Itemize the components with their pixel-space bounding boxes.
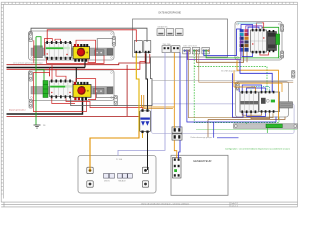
DK control box enclosure bbox=[133, 19, 228, 57]
frame border top ruler band bbox=[1, 2, 297, 4]
DK RJ45 connectors bbox=[157, 29, 183, 36]
wire red riser bbox=[126, 65, 128, 117]
wire green bar stub down bbox=[266, 128, 268, 133]
wire brown long to right edge bbox=[199, 54, 293, 82]
DK relay K1 bbox=[134, 41, 142, 54]
DK terminal groups bbox=[183, 47, 210, 54]
wire lavender DK mid down bbox=[118, 53, 165, 157]
wire yellow DK relay1 down bbox=[136, 53, 139, 131]
panel B enclosure bbox=[29, 70, 115, 101]
frame left ruler ticks bbox=[1, 12, 3, 195]
svg-text:ech. 1:1: ech. 1:1 bbox=[232, 206, 238, 208]
panel E socket 2 bbox=[87, 181, 93, 187]
wire blue drop bbox=[213, 122, 215, 138]
wire green panelA top bbox=[36, 37, 41, 48]
frame band cell marks bbox=[4, 3, 290, 4]
svg-text:Configuration : circuit interm: Configuration : circuit intermediaire di… bbox=[225, 148, 290, 151]
wire brown DK to panel C bbox=[197, 46, 244, 62]
panel A rail end block bbox=[107, 49, 113, 55]
wire blue DK mid down bbox=[179, 53, 181, 129]
wire orange long bypass panel D bbox=[237, 61, 278, 120]
ground symbol bbox=[34, 125, 41, 128]
svg-text:GENERATEUR: GENERATEUR bbox=[193, 159, 212, 163]
wire blue channel bbox=[187, 52, 276, 122]
wire grey panelA to DK relay2 bbox=[31, 28, 147, 42]
panel A rail connector grey bbox=[95, 50, 105, 56]
panel D loops bottom bbox=[242, 113, 269, 119]
wire red bus1a bbox=[7, 54, 150, 65]
breaker Q-gen mid bbox=[140, 109, 151, 133]
wire orange connector to generator bbox=[174, 140, 177, 158]
panel A rail clamp bbox=[34, 46, 43, 58]
wire green dashed earth run bbox=[194, 52, 279, 123]
wire blue long to panel D bbox=[240, 61, 272, 93]
panel C loops top bbox=[238, 23, 264, 35]
DK mid connectors bbox=[162, 46, 180, 53]
wire black breaker to socket3 bbox=[147, 133, 149, 170]
wire blue DK to panel C bbox=[204, 29, 241, 56]
panel B breaker group bbox=[50, 80, 74, 99]
panel B red loops bottom bbox=[34, 73, 143, 112]
panel E socket 4 bbox=[142, 181, 148, 187]
wire green dashed to earth bar bbox=[245, 123, 247, 124]
panel E enclosure bbox=[78, 156, 156, 194]
panel A right terminal bbox=[112, 37, 115, 47]
panel B screws bbox=[31, 72, 113, 99]
wire black DK relay2 down bbox=[146, 53, 148, 109]
connector pair upper above generator bbox=[172, 127, 182, 133]
panel B DIN rail bbox=[31, 87, 113, 95]
wire tan channel bbox=[188, 52, 273, 118]
wire blue connector to generator bbox=[179, 140, 180, 158]
wire green dashed fork to panel D bbox=[194, 67, 267, 92]
earth bar bbox=[234, 124, 298, 129]
svg-text:PC 16A: PC 16A bbox=[116, 158, 123, 161]
panel D changeover device bbox=[259, 91, 280, 113]
panel A emergency stop bbox=[73, 44, 90, 62]
wire green DK to panel C bbox=[206, 27, 279, 58]
connector pair lower above generator bbox=[172, 134, 182, 140]
panel B rail end block bbox=[107, 87, 113, 93]
panel C breakers bbox=[251, 29, 267, 54]
panel D breaker row bbox=[240, 91, 259, 113]
panel C screws bbox=[237, 23, 281, 59]
panel C contactor dark bbox=[267, 30, 277, 52]
wire green pale lower bbox=[196, 128, 297, 130]
panel C right terminal top bbox=[281, 25, 284, 32]
wire green block stub bbox=[278, 45, 280, 58]
panel B emergency stop bbox=[73, 82, 91, 100]
panel B grey wire to right terminal bbox=[97, 94, 115, 98]
panel A breaker group bbox=[45, 41, 72, 60]
panel B bottom-left terminal bbox=[29, 100, 32, 109]
panel B left terminal bbox=[29, 72, 32, 82]
wire black bus1b bbox=[7, 67, 86, 69]
panel E terminal group 1 bbox=[104, 174, 115, 179]
wire red bus1c bbox=[7, 62, 146, 70]
frame right border bbox=[297, 2, 299, 207]
wire blue left drop to D bottom bbox=[232, 73, 243, 117]
panel E socket 3 bbox=[142, 167, 148, 173]
wire orange run to socket1 bbox=[90, 131, 139, 170]
frame left ruler band bbox=[1, 2, 3, 202]
panel A enclosure bbox=[29, 31, 115, 60]
right edge terminal bbox=[292, 71, 295, 79]
panel D loops top bbox=[234, 70, 282, 92]
panel B green terminal block bbox=[43, 81, 48, 98]
wire blue relais segment bbox=[217, 137, 239, 139]
svg-text:DK7B MICROPHONE: DK7B MICROPHONE bbox=[159, 13, 182, 15]
wire green branch panelB bbox=[36, 70, 44, 81]
GENERATEUR box bbox=[171, 155, 228, 195]
svg-text:USB RJ: USB RJ bbox=[104, 181, 110, 183]
panel C right terminal bottom bbox=[281, 51, 284, 58]
panel A screws bbox=[31, 33, 113, 59]
wire brown drop bbox=[207, 120, 209, 138]
wire red panelA to DK relay1 bbox=[47, 30, 136, 42]
frame top ruler ticks bbox=[9, 2, 294, 4]
panel A DIN rail bbox=[31, 48, 113, 56]
panel B black estop wire bbox=[75, 68, 77, 83]
panel A left terminal bbox=[29, 32, 32, 42]
wire red relay2 feed bbox=[144, 53, 146, 63]
wire orange DK mid down bbox=[173, 53, 175, 108]
panel C enclosure bbox=[235, 22, 282, 61]
svg-text:Relais demarrage groupe: Relais demarrage groupe bbox=[191, 136, 212, 139]
panel D side grey block bbox=[280, 102, 293, 108]
wire grey panelB down right bbox=[71, 58, 152, 106]
wire black bus2 bbox=[7, 100, 83, 114]
wire orange pair panelB right bbox=[142, 95, 175, 128]
panel B right terminal bbox=[114, 96, 117, 106]
svg-text:depart generateur: depart generateur bbox=[9, 108, 26, 111]
panel E terminal group 2 bbox=[118, 174, 133, 179]
panel B rail connector grey bbox=[94, 88, 105, 94]
panel C loops bottom bbox=[242, 52, 269, 63]
wire purple DK to panel C bbox=[188, 35, 241, 60]
title bar bottom bbox=[1, 202, 297, 207]
wire brown channel bbox=[208, 117, 285, 120]
wire grey long to right edge bbox=[152, 80, 293, 82]
wire green main earth bbox=[35, 37, 37, 125]
svg-text:Usine de production electrique: Usine de production electrique - schema … bbox=[141, 202, 190, 205]
panel D enclosure bbox=[236, 82, 289, 118]
panel A black estop wire bbox=[84, 59, 86, 68]
panel D left terminal bbox=[236, 83, 239, 90]
wire orange breaker bottom stub bbox=[142, 133, 144, 138]
panel C green block bbox=[276, 34, 280, 45]
panel A grey wire to right terminal bbox=[97, 39, 112, 50]
svg-text:Vers NE dispo reseau: Vers NE dispo reseau bbox=[221, 69, 239, 72]
lavender zone rectangle bbox=[152, 104, 295, 134]
svg-text:vers armoire generale electriq: vers armoire generale electrique bbox=[13, 62, 44, 65]
wire red bus2 bbox=[7, 115, 140, 117]
panel E socket 1 bbox=[87, 167, 93, 173]
panel C blue terminal column bbox=[240, 29, 249, 52]
DK relay K2 bbox=[144, 41, 151, 54]
generator starter device bbox=[173, 158, 182, 179]
panel B red loops top bbox=[50, 65, 67, 80]
panel A red wire loops bbox=[34, 39, 104, 64]
